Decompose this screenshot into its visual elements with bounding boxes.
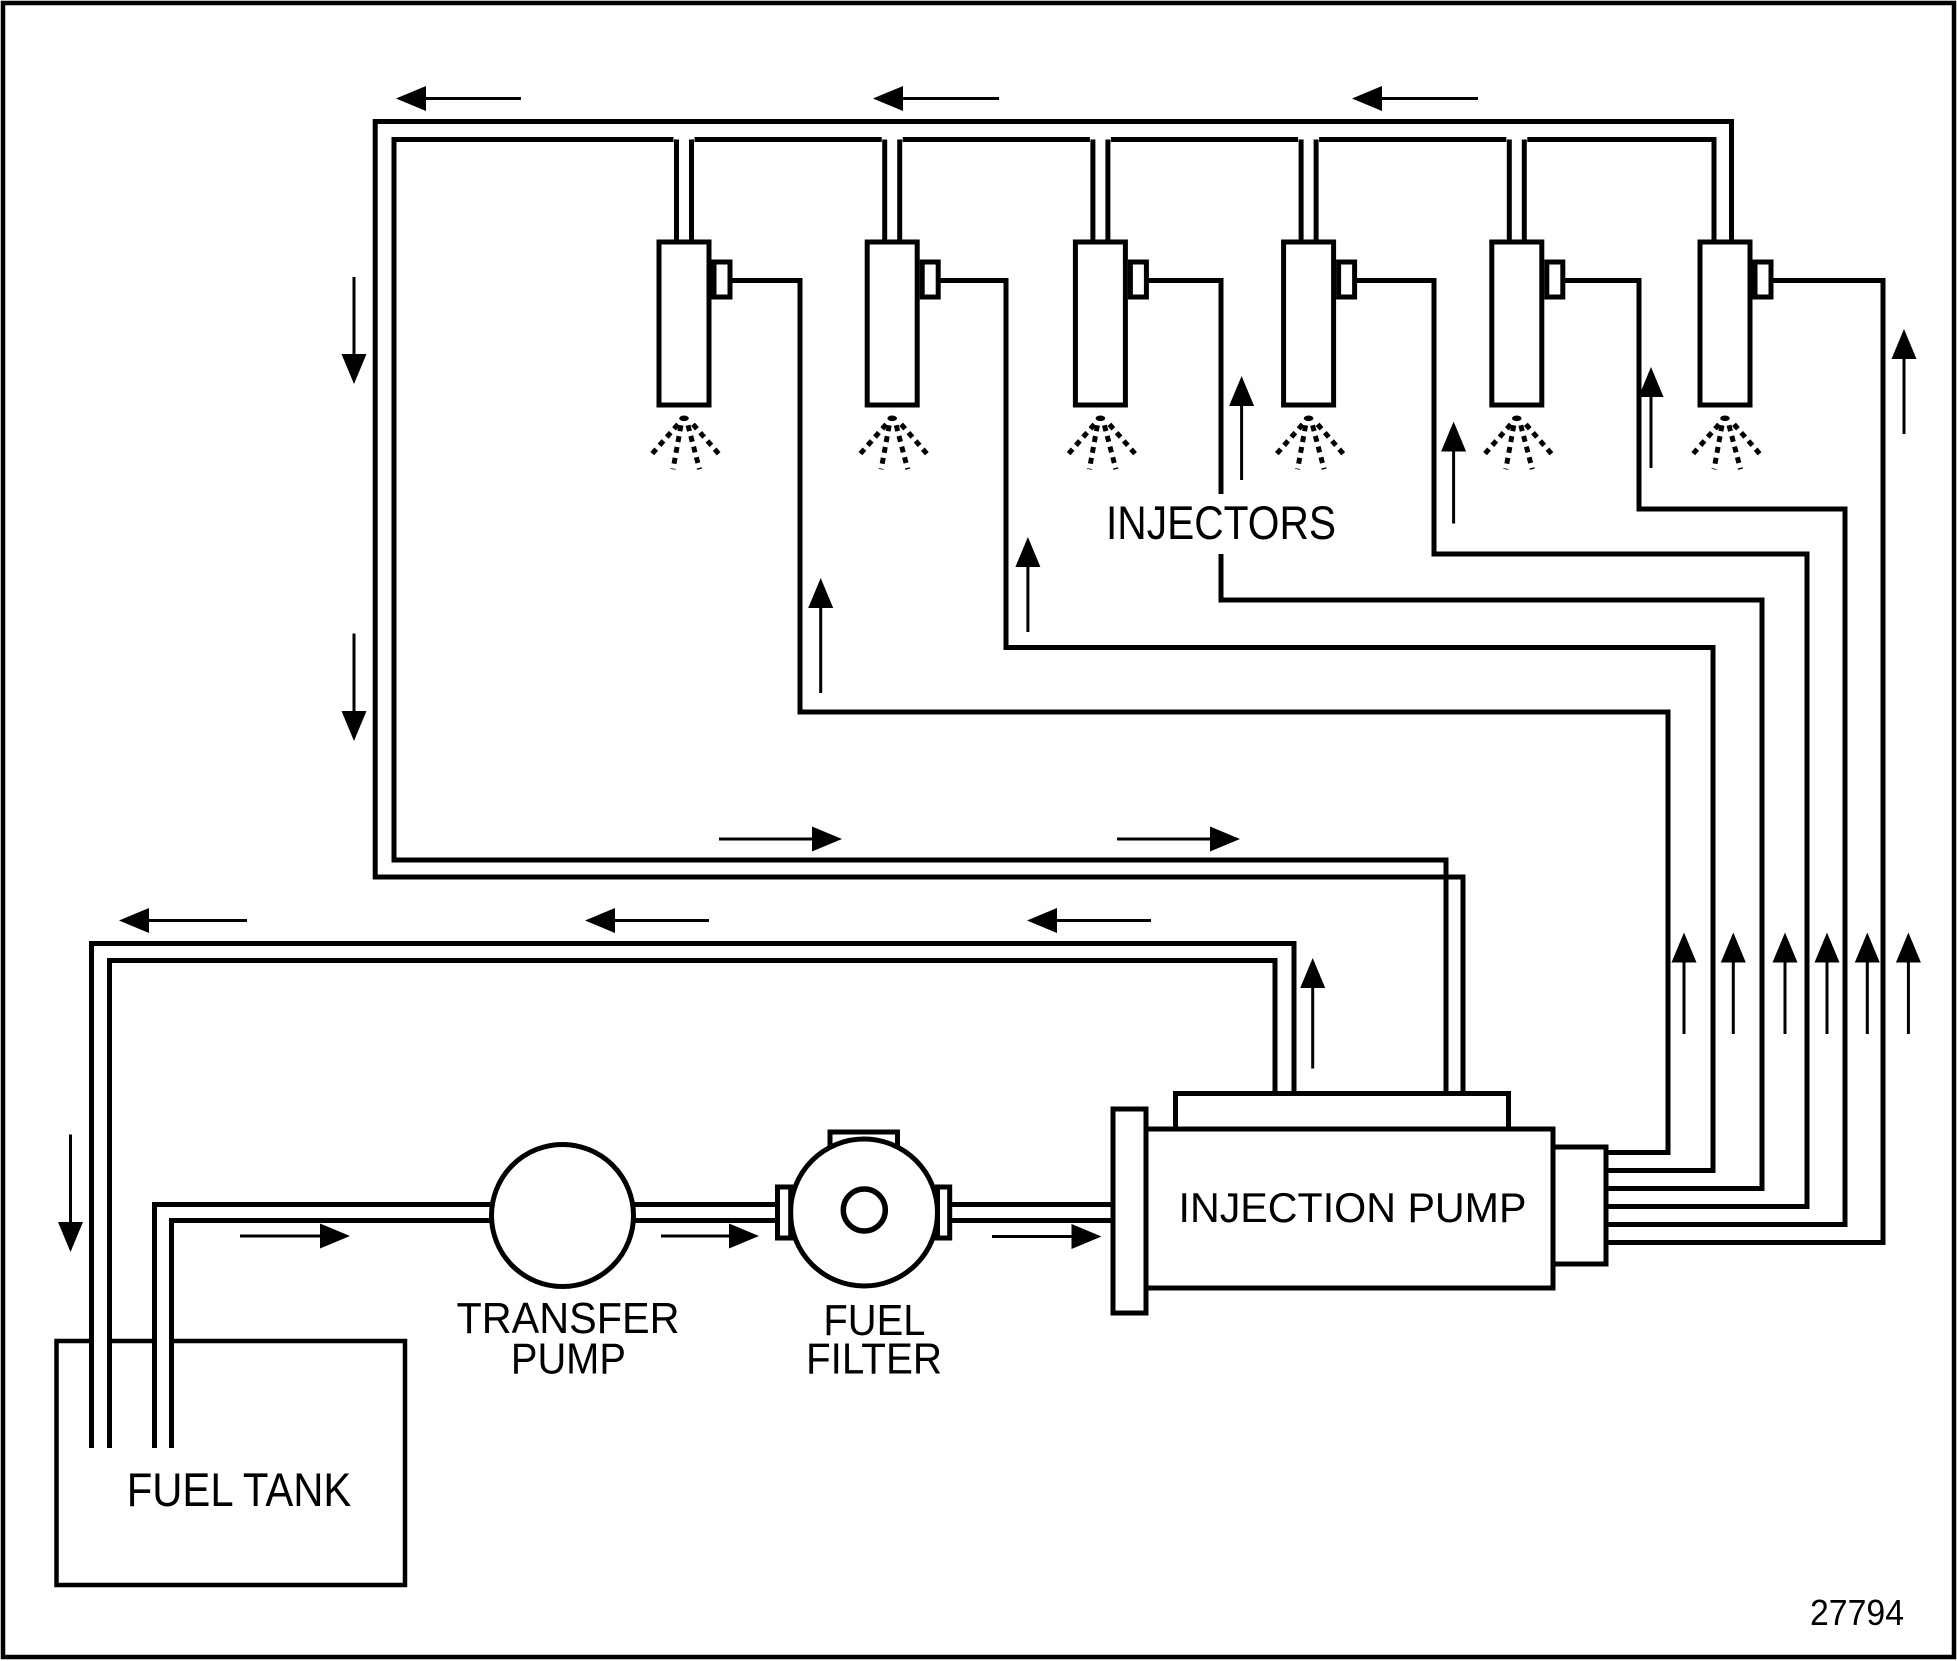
white halo behind INJECTORS label (1098, 494, 1344, 554)
svg-text:INJECTORS: INJECTORS (1106, 496, 1336, 549)
injector 4 spray (1274, 416, 1345, 470)
wire supply line injection pump to injector 3 (1146, 281, 1762, 1189)
flow arrow right on suction pipe (320, 1224, 350, 1249)
injection pump lid (1176, 1094, 1509, 1130)
injector 1 body (659, 242, 709, 405)
flow arrow up on supply line 2 (1015, 537, 1040, 567)
injector 6 body (1700, 242, 1750, 405)
fuel filter left tab (778, 1187, 791, 1238)
wire suction pipe inner line: tank up to transfer pump (172, 1221, 561, 1449)
fuel filter right tab (938, 1187, 950, 1238)
wire pipe fuel filter to injection pump, bottom line (946, 1218, 1125, 1223)
flow arrow up on supply line 3 (1229, 376, 1254, 406)
injector 5 body (1492, 242, 1542, 405)
flow arrow left on top manifold, right (1352, 86, 1382, 111)
flow arrow left on return pipe, middle (585, 908, 615, 933)
injector 3 outlet tab (1130, 262, 1146, 297)
wire return pipe inner line: riser from pump lid, run left, down into tank (110, 961, 1276, 1449)
injector 5 spray (1482, 416, 1553, 470)
injector 4 outlet tab (1339, 262, 1355, 297)
flow arrow right between fuel filter and injection pump (1072, 1224, 1102, 1249)
injector 5 outlet tab (1547, 262, 1563, 297)
flow arrow up on supply line 1 (808, 578, 833, 608)
flow arrow down on manifold left side, lower (342, 711, 367, 741)
injector 1 outlet tab (714, 262, 730, 297)
flow arrow up on supply line 6 riser near injection pump (1896, 933, 1921, 963)
wire manifold inner top segment between injector 4 and 5 (1319, 137, 1506, 142)
wire branch pipe left line to injector 4 (1299, 140, 1304, 245)
flow arrow left on return pipe, left (119, 908, 149, 933)
wire manifold outer line: top rail, left side, bottom run, elbow down to pump lid (375, 122, 1731, 1099)
wire supply line injection pump to injector 6 (1590, 281, 1883, 1243)
wire branch pipe left line to injector 3 (1090, 140, 1095, 245)
injector 1 spray (649, 416, 720, 470)
transfer pump circle (492, 1145, 634, 1287)
flow arrow left on top manifold, middle (873, 86, 903, 111)
flow arrow left on top manifold, left (396, 86, 426, 111)
flow arrow up on supply line 1 riser near injection pump (1672, 933, 1697, 963)
svg-text:FUEL TANK: FUEL TANK (127, 1463, 352, 1516)
injector 3 body (1075, 242, 1125, 405)
fuel filter inner circle (843, 1189, 885, 1231)
svg-text:FILTER: FILTER (806, 1336, 942, 1384)
svg-text:PUMP: PUMP (511, 1336, 626, 1384)
fuel tank (57, 1341, 406, 1585)
wire branch pipe right line to injector 1 (689, 140, 694, 245)
wire branch pipe right line to injector 5 (1522, 140, 1527, 245)
injection pump body (1145, 1129, 1553, 1288)
flow arrow up on supply line 4 riser near injection pump (1815, 933, 1840, 963)
flow arrow down on manifold left side, upper (342, 354, 367, 384)
injector 2 outlet tab (922, 262, 938, 297)
wire manifold inner top segment from injector 5 to right-end elbow down to injector 6 (1527, 140, 1714, 245)
wire pipe fuel filter to injection pump, top line (946, 1202, 1125, 1207)
wire supply line injection pump to injector 5 (1563, 281, 1845, 1225)
flow arrow up on supply line 3 riser near injection pump (1773, 933, 1798, 963)
wire branch pipe right line to injector 3 (1105, 140, 1110, 245)
injector 2 body (867, 242, 917, 405)
flow arrow up on supply line 2 riser near injection pump (1721, 933, 1746, 963)
flow arrow down on return pipe into fuel tank (58, 1222, 83, 1252)
svg-text:27794: 27794 (1810, 1592, 1904, 1633)
wire manifold inner top segment between injector 1 and 2 (695, 137, 882, 142)
wire suction pipe outer line: tank up to transfer pump (155, 1205, 566, 1449)
injector 6 spray (1690, 416, 1761, 470)
flow arrow up on supply line 6 (1892, 329, 1917, 359)
flow arrow right on manifold bottom run, left (812, 827, 842, 852)
fuel filter outer circle (791, 1139, 938, 1286)
wire branch pipe right line to injector 4 (1314, 140, 1319, 245)
wire supply line injection pump to injector 4 (1355, 281, 1807, 1207)
flow arrow up on supply line 5 (1639, 367, 1664, 397)
wire manifold inner line: top-left segment, left side, bottom run, elbow down to pump lid (394, 140, 1446, 1099)
wire supply line injection pump to injector 2 (938, 281, 1713, 1171)
wire pipe transfer pump to fuel filter, top line (558, 1202, 782, 1207)
wire pipe transfer pump to fuel filter, bottom line (558, 1218, 782, 1223)
flow arrow up on return riser at injection pump (1300, 958, 1325, 988)
wire branch pipe left line to injector 1 (674, 140, 679, 245)
wire manifold inner top segment between injector 3 and 4 (1111, 137, 1298, 142)
flow arrow up on supply line 5 riser near injection pump (1855, 933, 1880, 963)
injection pump left flange (1113, 1109, 1146, 1313)
wire return pipe outer line: riser from pump lid, run left, down into tank (92, 944, 1295, 1449)
injection pump right flange (1553, 1147, 1606, 1264)
injector 3 spray (1065, 416, 1136, 470)
wire branch pipe left line to injector 2 (882, 140, 887, 245)
wire manifold inner top segment between injector 2 and 3 (903, 137, 1090, 142)
injector 4 body (1284, 242, 1334, 405)
flow arrow left on return pipe, right (1027, 908, 1057, 933)
wire branch pipe right line to injector 2 (897, 140, 902, 245)
wire supply line injection pump to injector 1 (730, 281, 1668, 1153)
wire branch pipe left line to injector 5 (1507, 140, 1512, 245)
flow arrow up on supply line 4 (1441, 422, 1466, 452)
svg-text:INJECTION PUMP: INJECTION PUMP (1179, 1184, 1527, 1231)
flow arrow right on manifold bottom run, right (1210, 827, 1240, 852)
injector 2 spray (857, 416, 928, 470)
injector 6 outlet tab (1755, 262, 1771, 297)
flow arrow right between transfer pump and fuel filter (729, 1224, 759, 1249)
fuel filter top cap (830, 1132, 898, 1167)
